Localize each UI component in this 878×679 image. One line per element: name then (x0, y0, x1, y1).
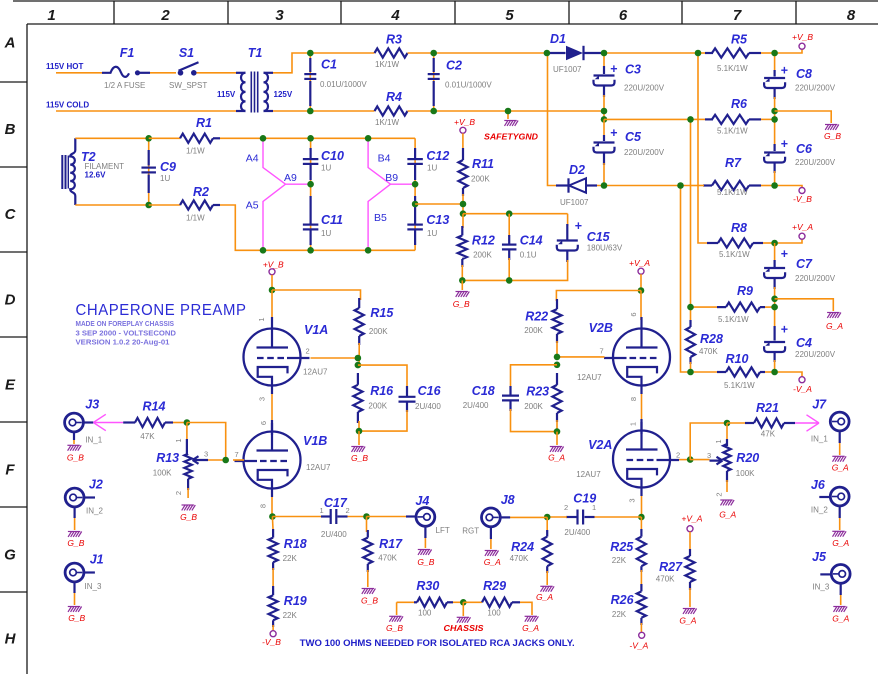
svg-text:CHASSIS: CHASSIS (444, 623, 484, 633)
svg-text:3: 3 (258, 397, 267, 401)
svg-text:IN_1: IN_1 (811, 435, 828, 444)
wire (368, 184, 390, 250)
svg-text:+: + (575, 219, 583, 233)
svg-text:5.1K/1W: 5.1K/1W (717, 188, 748, 197)
wire (691, 185, 705, 187)
capacitor C18 (509, 386, 511, 396)
wire (263, 184, 286, 250)
V2A grid (627, 459, 657, 461)
svg-text:1: 1 (47, 7, 55, 24)
svg-text:F1: F1 (120, 46, 135, 60)
wire 115V HOT to F1 (56, 72, 103, 74)
svg-text:8: 8 (847, 7, 856, 24)
svg-text:8: 8 (629, 397, 638, 401)
svg-text:22K: 22K (612, 556, 627, 565)
svg-text:R8: R8 (731, 221, 747, 235)
wire (726, 480, 728, 492)
wire (508, 258, 510, 280)
svg-text:5: 5 (505, 7, 514, 24)
svg-text:0.1U: 0.1U (520, 251, 537, 260)
wire T1 secondary top to C1 (273, 53, 310, 73)
wire R5 right (761, 52, 775, 54)
svg-text:47K: 47K (761, 430, 776, 439)
svg-text:C: C (5, 206, 17, 223)
ground SAFETYGND (504, 121, 518, 126)
ground G_B under R16 (351, 447, 365, 452)
wire plate rail to R15 (272, 290, 361, 300)
wire T1 secondary bottom (273, 110, 310, 112)
svg-text:+V_B: +V_B (454, 117, 475, 127)
wire (840, 583, 842, 605)
svg-text:1: 1 (320, 506, 324, 515)
wire C18 bottom to R23 bottom (511, 409, 558, 432)
wire (567, 214, 569, 226)
junction D1/D2 branch (544, 50, 551, 57)
wire R6 node down (crosses D2 rail) (690, 119, 692, 307)
svg-text:G_A: G_A (679, 616, 696, 626)
junction D1/C3 (601, 50, 608, 57)
V2B cathode (627, 367, 657, 394)
svg-text:C2: C2 (446, 59, 462, 73)
svg-text:G_B: G_B (386, 623, 403, 633)
svg-text:2U/400: 2U/400 (463, 401, 489, 410)
jack J6 (830, 487, 849, 506)
junction C9 bottom (145, 202, 152, 209)
junction D2/C5 (601, 182, 608, 189)
resistor R15 (358, 298, 360, 308)
junction C7 bottom / G_A wire (771, 296, 778, 303)
junction A4 (260, 135, 267, 142)
triode V1A envelope (244, 329, 301, 386)
svg-text:2: 2 (715, 492, 724, 496)
junction R21/R20 (724, 420, 731, 427)
ground G_B mid (456, 292, 470, 297)
svg-text:C14: C14 (520, 234, 543, 248)
svg-text:3: 3 (628, 498, 637, 502)
junction A9/C10/C11 (307, 181, 314, 188)
svg-text:E: E (5, 377, 16, 394)
wire V2B grid to R22/R23 (557, 356, 605, 358)
svg-text:J6: J6 (811, 478, 826, 492)
svg-text:2U/400: 2U/400 (564, 528, 590, 537)
svg-text:2: 2 (676, 451, 680, 460)
wire C5 bottom to D2 rail (603, 163, 605, 186)
wire grid to R20 wiper (690, 459, 709, 461)
wire R12/C14/C15 top rail (463, 213, 568, 215)
svg-text:C15: C15 (587, 230, 611, 244)
svg-text:1: 1 (592, 503, 596, 512)
svg-text:6: 6 (619, 7, 628, 24)
wire top rail to R3 (310, 52, 374, 54)
resistor R14 (123, 421, 135, 423)
wire C9 vertical (148, 138, 150, 205)
wire mid rail to C5 (603, 119, 605, 138)
svg-text:G_A: G_A (832, 463, 849, 473)
svg-text:G_A: G_A (536, 592, 553, 602)
wire (74, 582, 76, 605)
svg-text:7: 7 (600, 347, 604, 356)
svg-text:V2B: V2B (589, 321, 613, 335)
ground G_B under J4 (418, 550, 432, 555)
wire (547, 516, 567, 518)
wire (453, 601, 463, 603)
wire (187, 488, 189, 498)
svg-text:2U/400: 2U/400 (415, 402, 441, 411)
junction V2 plate rail (638, 287, 645, 294)
svg-text:100K: 100K (153, 468, 172, 477)
svg-text:SW_SPST: SW_SPST (169, 81, 207, 90)
svg-text:-V_B: -V_B (793, 194, 812, 204)
svg-text:R20: R20 (736, 451, 759, 465)
svg-text:B4: B4 (378, 153, 391, 165)
V2A plate (640, 419, 642, 450)
svg-text:G_A: G_A (832, 614, 849, 624)
wire to chassis ground (462, 602, 464, 616)
svg-text:G_B: G_B (351, 453, 368, 463)
fuse F1 (102, 67, 129, 77)
ground G_A under J8 (485, 551, 499, 556)
svg-text:C7: C7 (796, 257, 813, 271)
junction R9/C4 (771, 304, 778, 311)
svg-text:6: 6 (259, 421, 268, 425)
svg-text:R29: R29 (483, 579, 506, 593)
wire (397, 601, 416, 603)
svg-text:1/1W: 1/1W (186, 214, 205, 223)
junction R16/C16 bottom (356, 428, 363, 435)
svg-text:B: B (5, 121, 16, 138)
ground G_B under J3 (67, 445, 81, 450)
svg-text:12AU7: 12AU7 (576, 470, 601, 479)
wire +V_B to V1 plate rail (271, 275, 273, 290)
svg-text:1U: 1U (160, 174, 170, 183)
wire R8 to C7 (774, 243, 776, 262)
svg-text:220U/200V: 220U/200V (795, 158, 836, 167)
svg-text:22K: 22K (612, 610, 627, 619)
power port -V_B bottom (270, 631, 276, 637)
triode V2B envelope (613, 329, 670, 386)
svg-text:115V HOT: 115V HOT (46, 62, 83, 71)
wire (640, 517, 642, 531)
svg-text:J5: J5 (812, 550, 827, 564)
wire (546, 571, 548, 585)
junction C1 bottom (307, 108, 314, 115)
junction B9/C12/C13 (412, 181, 419, 188)
wire (74, 507, 76, 530)
junction R16/C16 tap (355, 362, 362, 369)
svg-text:C3: C3 (625, 63, 641, 77)
wire mid rail to R6 (604, 118, 691, 120)
svg-text:1/2 A FUSE: 1/2 A FUSE (104, 81, 145, 90)
arrow into J3 (93, 414, 123, 430)
svg-text:4: 4 (390, 7, 400, 24)
wire (508, 214, 510, 237)
wire (585, 516, 641, 518)
svg-text:5.1K/1W: 5.1K/1W (724, 381, 755, 390)
ground G_A under J7 (832, 456, 846, 461)
wire +V_B to R11 (462, 133, 464, 150)
wire T2 bottom to C9/R2 (75, 204, 148, 206)
wire (689, 588, 691, 607)
svg-text:G_B: G_B (180, 512, 197, 522)
svg-text:TWO 100 OHMS NEEDED FOR ISOLA: TWO 100 OHMS NEEDED FOR ISOLATED RCA JAC… (300, 638, 575, 648)
svg-text:R17: R17 (379, 537, 403, 551)
svg-text:R15: R15 (370, 306, 394, 320)
switch S1 SW_SPST (178, 70, 184, 76)
diode D2 (556, 184, 568, 186)
V2B plate (640, 317, 642, 348)
junction C9 top (145, 135, 152, 142)
svg-text:C16: C16 (418, 384, 442, 398)
svg-text:470K: 470K (699, 347, 718, 356)
junction R30/R29 chassis (460, 599, 467, 606)
svg-text:2: 2 (306, 347, 310, 356)
svg-text:1: 1 (714, 439, 723, 443)
power port +V_B mid (460, 127, 466, 133)
V2B grid (627, 357, 657, 359)
wire R7 to -V_B port (775, 186, 802, 188)
svg-text:470K: 470K (510, 554, 529, 563)
wire (546, 517, 548, 532)
ground G_B under R13 (182, 505, 196, 510)
svg-text:220U/200V: 220U/200V (795, 84, 836, 93)
svg-text:LFT: LFT (436, 526, 450, 535)
junction C12-C13 to R11 rail (412, 201, 419, 208)
triode V1B envelope (244, 432, 301, 489)
jack J1 (65, 563, 84, 582)
junction C14 top (506, 210, 513, 217)
capacitor C17 (321, 515, 330, 517)
capacitor C11 (310, 196, 312, 224)
svg-text:A: A (4, 35, 16, 52)
svg-text:J4: J4 (415, 494, 429, 508)
wire (689, 532, 691, 551)
ground CHASSIS (457, 617, 471, 622)
svg-text:5.1K/1W: 5.1K/1W (719, 250, 750, 259)
wire C7 bottom (774, 287, 776, 307)
power port +V_A R27 (687, 526, 693, 532)
wire (391, 183, 416, 185)
svg-text:+: + (781, 64, 789, 78)
wire (839, 506, 841, 530)
wire R6 rail to C6 (774, 119, 776, 146)
ground G_A under R24 (540, 586, 554, 591)
svg-text:+V_B: +V_B (263, 260, 284, 270)
svg-text:1: 1 (174, 438, 183, 442)
wire (366, 517, 368, 533)
wire to J4 (367, 516, 407, 518)
svg-text:12AU7: 12AU7 (577, 373, 602, 382)
svg-text:+: + (781, 137, 789, 151)
svg-text:220U/200V: 220U/200V (624, 84, 665, 93)
wire plate rail to V1A plate (271, 290, 273, 320)
wire R9 node to R28 (690, 307, 692, 322)
svg-text:UF1007: UF1007 (553, 65, 582, 74)
jack J5 (831, 565, 850, 584)
svg-text:C6: C6 (796, 142, 813, 156)
svg-text:R27: R27 (659, 560, 683, 574)
svg-text:47K: 47K (140, 432, 155, 441)
wire to R9 (691, 306, 718, 308)
diode D1 (547, 52, 566, 54)
resistor R8 (707, 242, 718, 244)
wire J4 to ground (424, 526, 426, 548)
svg-text:IN_2: IN_2 (86, 507, 103, 516)
jack J2 (65, 488, 84, 507)
svg-text:B9: B9 (385, 172, 398, 184)
svg-text:UF1007: UF1007 (560, 198, 589, 207)
svg-text:3: 3 (204, 450, 208, 459)
svg-text:J1: J1 (90, 553, 104, 567)
svg-text:125V: 125V (274, 90, 293, 99)
wire (763, 242, 775, 244)
svg-text:1U: 1U (321, 229, 331, 238)
svg-text:R11: R11 (472, 157, 494, 171)
svg-text:S1: S1 (179, 46, 194, 60)
wire (348, 516, 367, 518)
power port +V_A (799, 233, 805, 239)
svg-text:IN_3: IN_3 (85, 582, 102, 591)
wire to C17 (272, 516, 322, 518)
V1B plate (271, 420, 273, 451)
wire V1A grid to R15/R16 (311, 357, 358, 359)
wire (286, 183, 311, 185)
wire R1 to heater top rail (220, 137, 415, 139)
svg-text:8: 8 (259, 504, 268, 508)
wire (461, 265, 463, 280)
junction V2B grid (554, 354, 561, 361)
wire S1 to T1 (197, 72, 237, 74)
svg-text:115V: 115V (217, 90, 236, 99)
power port -V_A bottom (639, 632, 645, 638)
wire (367, 570, 369, 587)
ground G_A under R29 (525, 616, 539, 621)
svg-text:C11: C11 (321, 213, 343, 227)
junction C17/J4/R17 (363, 513, 370, 520)
jack J3 (65, 413, 84, 432)
wire C16 bottom to R16 bottom (359, 410, 407, 431)
svg-text:R6: R6 (731, 97, 748, 111)
svg-text:+V_B: +V_B (792, 32, 813, 42)
wire C12/C13 vertical (414, 138, 416, 250)
svg-text:R28: R28 (700, 332, 723, 346)
junction C2 bottom (430, 108, 437, 115)
svg-text:1K/1W: 1K/1W (375, 118, 399, 127)
wire (691, 118, 707, 120)
wire (727, 422, 745, 424)
svg-text:T1: T1 (248, 46, 263, 60)
triode V2A envelope (613, 431, 670, 488)
ground G_B under R17 (362, 589, 376, 594)
wire 115V COLD to T1 (56, 110, 236, 112)
svg-text:A4: A4 (246, 153, 259, 165)
wire C13 rail to R11 bottom (415, 203, 463, 205)
junction R14/R13 (184, 419, 191, 426)
wire C10/C11 vertical (310, 138, 312, 250)
svg-text:G_B: G_B (824, 131, 841, 141)
wire (462, 194, 464, 214)
svg-text:R22: R22 (525, 310, 548, 324)
junction C19/J8/R24 (544, 514, 551, 521)
power port +V_B V1 (269, 269, 275, 275)
svg-text:A9: A9 (284, 172, 297, 184)
wire R5 rail down to R8 (698, 53, 707, 243)
svg-text:R23: R23 (526, 384, 549, 398)
wire R5 to +V_B port (775, 50, 802, 54)
arrow to J7 (795, 415, 819, 431)
wire (208, 459, 226, 461)
wire C2 vertical (433, 53, 435, 111)
svg-text:100: 100 (487, 609, 501, 618)
junction V1 plate rail (269, 287, 276, 294)
svg-text:R19: R19 (284, 594, 307, 608)
wire +V_B rail to C8 (774, 53, 776, 72)
wire D1 to C3 (603, 53, 605, 68)
svg-text:-V_A: -V_A (629, 641, 648, 651)
wire V2A grid right (679, 459, 690, 461)
wire T2 top to C9/R1 (75, 137, 148, 139)
svg-text:R25: R25 (610, 540, 634, 554)
resistor R3 (375, 48, 408, 57)
wire to R13 (186, 423, 188, 442)
svg-text:1: 1 (257, 317, 266, 321)
svg-text:C12: C12 (426, 149, 449, 163)
svg-text:C18: C18 (472, 384, 495, 398)
wire C6 bottom (774, 171, 776, 186)
wire plate rail to V2B plate (640, 291, 642, 321)
svg-text:200K: 200K (473, 251, 492, 260)
wire R30 left to ground (396, 602, 398, 615)
wire (641, 394, 643, 423)
svg-text:R7: R7 (725, 156, 742, 170)
svg-text:200K: 200K (524, 326, 543, 335)
svg-text:MADE ON FOREPLAY CHASSIS: MADE ON FOREPLAY CHASSIS (76, 319, 175, 328)
wire to SAFETYGND (507, 111, 509, 119)
svg-text:A5: A5 (246, 200, 259, 212)
svg-text:IN_2: IN_2 (811, 506, 828, 515)
svg-text:22K: 22K (283, 611, 298, 620)
V1B grid (257, 460, 287, 462)
svg-text:220U/200V: 220U/200V (624, 148, 665, 157)
svg-text:V2A: V2A (588, 438, 612, 452)
svg-text:100K: 100K (736, 469, 755, 478)
junction C14 bottom (506, 277, 513, 284)
wire (839, 431, 841, 455)
svg-text:G_A: G_A (826, 321, 843, 331)
wire R2 to heater bottom rail (220, 205, 415, 250)
wire F1 to S1 (150, 72, 176, 74)
wire R9 to C4 (774, 307, 776, 328)
wire D1 to R5 rail (604, 52, 698, 54)
wire (272, 568, 274, 588)
junction V1B grid (222, 457, 229, 464)
wire J8 to C19 (500, 516, 547, 518)
wire (556, 420, 558, 432)
svg-text:G_A: G_A (548, 453, 565, 463)
junction V2A grid (687, 456, 694, 463)
wire (761, 118, 775, 120)
svg-text:B5: B5 (374, 212, 387, 224)
junction B5 (365, 247, 372, 254)
svg-text:V1A: V1A (304, 323, 328, 337)
svg-text:200K: 200K (471, 175, 490, 184)
svg-text:1U: 1U (321, 164, 331, 173)
junction SAFETYGND (505, 108, 512, 115)
wire (556, 341, 558, 357)
svg-text:R18: R18 (284, 537, 307, 551)
svg-text:12.6V: 12.6V (85, 171, 107, 180)
wire R29 right to ground (520, 602, 532, 615)
svg-text:470K: 470K (378, 554, 397, 563)
